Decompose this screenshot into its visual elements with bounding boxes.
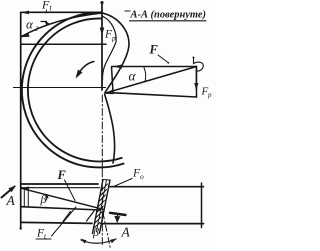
rack flank slash 2 xyxy=(87,211,95,221)
cutter tooth right flank xyxy=(100,180,111,233)
rotation arrow xyxy=(77,62,94,77)
label Fr top xyxy=(104,29,116,43)
section arrow A bottom xyxy=(110,213,126,215)
node centerline dash-dot xyxy=(101,95,103,170)
bottom bar bottom edge xyxy=(21,222,92,223)
svg-text:р: р xyxy=(207,91,212,99)
cutter tooth left flank xyxy=(93,180,104,234)
label Ft top xyxy=(41,0,53,13)
cutter tooth tip cap xyxy=(103,179,110,182)
wire horizontal centerline xyxy=(14,87,106,89)
outer cutter arc xyxy=(22,12,124,167)
label Ft bottom with underline xyxy=(36,228,47,241)
section view left edge xyxy=(112,67,114,93)
label alpha xyxy=(129,69,137,84)
label Fr right xyxy=(201,86,213,100)
label beta xyxy=(40,192,47,206)
tooth tip inner curve xyxy=(102,17,116,81)
label A-A (rotated) xyxy=(129,10,206,21)
label F bottom xyxy=(57,168,67,182)
rack flank slash 1 xyxy=(63,212,71,222)
bottom bar top edge xyxy=(21,187,100,189)
svg-text:α: α xyxy=(26,17,34,32)
force Fr arrow in section xyxy=(195,67,197,89)
force F diagonal bottom xyxy=(21,188,103,209)
svg-text:β: β xyxy=(92,225,99,239)
section view top edge with arrow xyxy=(112,66,197,68)
groove floor line xyxy=(21,207,100,210)
tooth tip outer curve xyxy=(103,13,130,93)
label beta bottom xyxy=(92,225,99,239)
svg-text:α: α xyxy=(129,69,137,84)
svg-text:A: A xyxy=(121,225,131,240)
label A bottom xyxy=(121,225,131,240)
bottom bar right end xyxy=(201,183,203,228)
tooth hook squiggle xyxy=(194,58,204,71)
svg-text:F: F xyxy=(149,43,159,57)
wire horizontal construction line xyxy=(21,43,106,45)
gear flank curve xyxy=(105,95,115,164)
svg-text:β: β xyxy=(40,192,47,206)
tooth hatching xyxy=(94,184,108,229)
extension tick 2 xyxy=(27,189,29,206)
label alpha-g xyxy=(26,17,39,34)
wire addendum line xyxy=(21,183,98,185)
force line Fr vertical xyxy=(101,3,103,90)
label A top-left xyxy=(6,193,16,208)
wire left vertical extension line xyxy=(20,12,22,228)
label Fo xyxy=(132,168,144,182)
extension tick 1 xyxy=(23,189,25,207)
svg-text:A: A xyxy=(6,193,16,208)
label F section xyxy=(149,43,159,57)
inner cutter arc xyxy=(28,18,122,161)
angle beta tick xyxy=(46,195,48,201)
angle beta arc bottom xyxy=(81,239,116,243)
rake flank curve with arrow xyxy=(22,13,103,37)
angle arc alpha xyxy=(144,68,146,82)
wire top tangent line xyxy=(22,11,102,13)
node tooth axis dash-dot xyxy=(103,213,111,249)
svg-text:о: о xyxy=(140,172,144,181)
force F diagonal with arrow xyxy=(105,67,197,94)
section arrow A top-left xyxy=(2,187,15,198)
section view bottom edge xyxy=(113,93,197,97)
section view right edge xyxy=(196,67,198,98)
svg-text:А-А (повернуте): А-А (повернуте) xyxy=(129,10,206,21)
